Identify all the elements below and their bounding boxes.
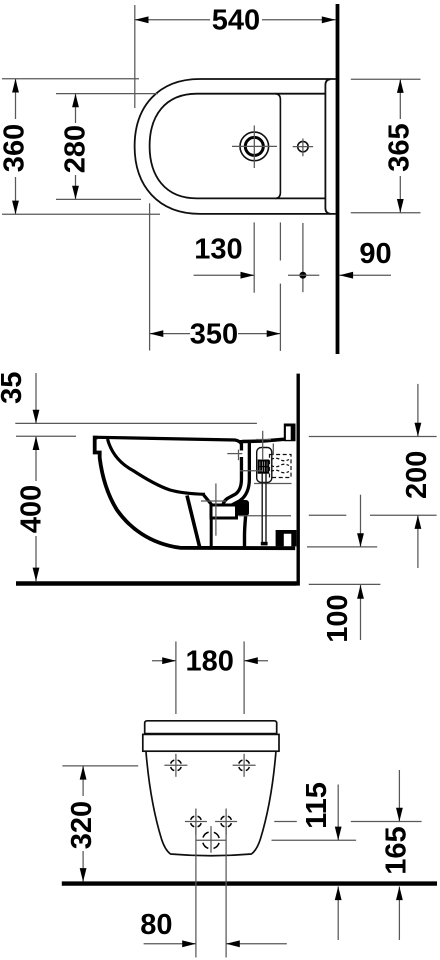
svg-text:400: 400 — [15, 485, 47, 533]
overflow channel walls (side) — [227, 440, 246, 508]
dim 280 arrow down — [72, 186, 79, 200]
dim 165 line — [398, 770, 400, 822]
trap inlet centerline horizontal — [201, 500, 226, 502]
svg-text:540: 540 — [212, 5, 260, 37]
wall outlet hatched region (dashed) — [270, 455, 292, 478]
dim 165 arrow down — [396, 808, 403, 822]
rim reference line A — [15, 422, 257, 424]
dim 165 arrow up — [396, 886, 403, 900]
hole reference dot — [299, 272, 306, 279]
wall line (side) — [297, 374, 300, 586]
drain funnel left slope — [204, 495, 212, 505]
chamber bottom line to wall — [254, 483, 292, 485]
bidet deck top (side) — [98, 437, 242, 444]
chamber top thick band — [242, 439, 284, 441]
dim 365 arrow up — [397, 79, 404, 93]
shell section rear edge — [187, 496, 200, 547]
dim 350 arrow right — [267, 330, 281, 337]
bidet inner rim outline (plan) — [150, 94, 326, 199]
dim 115 line — [337, 785, 339, 841]
mid-hole extension line right — [225, 826, 227, 958]
dim 320 line — [82, 766, 84, 796]
TOP VIEW — [0, 4, 421, 354]
inlet hole cross — [227, 453, 242, 455]
dim 180 extension right — [243, 641, 245, 714]
dim 360 arrow down — [12, 201, 19, 215]
dim 350 line — [150, 333, 190, 335]
faucet hole inner circle — [245, 137, 263, 155]
bidet back rim edge (plan) — [325, 79, 330, 214]
floor line (front) — [62, 881, 437, 885]
dim 540 line — [135, 19, 210, 21]
dim 90 arrow — [339, 272, 353, 279]
svg-text:80: 80 — [140, 909, 172, 941]
wall line (plan) — [336, 4, 340, 354]
faucet hole outer circle — [240, 132, 269, 161]
svg-text:180: 180 — [186, 645, 234, 677]
dim 180 line right stub — [244, 660, 268, 662]
mid hole level line — [274, 821, 297, 823]
dim 80 arrow left-pointing-right — [182, 940, 196, 947]
top wall bracket — [284, 424, 296, 442]
bowl inner surface curve (side) — [108, 439, 206, 494]
small hole extension line — [302, 223, 304, 292]
bottom wall bracket — [276, 530, 297, 546]
dim 200 extension top — [309, 436, 437, 438]
small hole centerline vertical — [302, 139, 304, 157]
valve chamber (side) — [257, 448, 272, 483]
dim 540 arrow right — [322, 16, 336, 23]
dim 115 arrow up — [335, 886, 342, 900]
mounting stud centerline — [262, 431, 264, 460]
dim 80 line right — [226, 943, 287, 945]
upper-left fixing hole — [164, 754, 187, 777]
bidet front lip + outer shell curve (side) — [95, 438, 296, 549]
dim 115 arrow down — [335, 827, 342, 841]
dim 320 arrow up — [80, 766, 87, 780]
dim 180 arrow right — [244, 657, 258, 664]
mid-hole extension line left — [195, 826, 197, 958]
drain trap box (side) — [211, 505, 237, 518]
dim 100 arrow up — [357, 585, 364, 599]
svg-text:100: 100 — [322, 594, 354, 642]
dim 365 extension top — [351, 78, 421, 80]
dim 80 arrow right-pointing-left — [226, 940, 240, 947]
dim 100 extension bottom (floor level) — [309, 583, 381, 585]
svg-text:350: 350 — [190, 318, 238, 350]
body outline (front) — [146, 752, 276, 856]
dim 280 arrow up — [72, 94, 79, 108]
dim 165 lower line — [398, 886, 400, 940]
dim 320 arrow down — [80, 868, 87, 882]
below-trap vertical edge — [210, 520, 213, 548]
dim 365 extension bottom — [351, 212, 421, 214]
drain outer tail edge — [245, 503, 247, 547]
dim 100 line bottom — [360, 585, 362, 640]
drain outlet centerline — [239, 515, 291, 517]
faucet hole centerline (side) — [240, 470, 262, 472]
dim 360 arrow up — [12, 79, 19, 93]
dim 280 extension bottom — [56, 198, 141, 200]
faucet centerline horizontal — [232, 145, 277, 147]
svg-text:280: 280 — [60, 125, 92, 173]
dim 80 line left — [144, 943, 196, 945]
svg-text:365: 365 — [383, 123, 415, 171]
valve ribbed box — [259, 461, 269, 473]
faucet centerline vertical — [253, 126, 255, 169]
dim 360 line — [15, 79, 17, 119]
floor line (side) — [16, 581, 297, 585]
dim 90 line — [339, 274, 391, 276]
dim 130 arrow — [241, 272, 255, 279]
mounting stud rod — [261, 473, 263, 542]
dim 360 extension bottom — [2, 213, 160, 215]
rim reference line B — [16, 435, 76, 437]
svg-text:200: 200 — [401, 451, 433, 499]
dim 180 arrow left — [162, 657, 176, 664]
svg-text:90: 90 — [359, 238, 391, 270]
dim 100 arrow down — [357, 533, 364, 547]
dim 400 line — [35, 436, 37, 481]
dim 360 extension top — [2, 78, 139, 80]
svg-text:35: 35 — [0, 372, 28, 404]
dim 280 extension top — [56, 93, 158, 95]
dim 180 line left stub — [152, 660, 176, 662]
deck edge dashed extension line — [279, 222, 281, 260]
dim 365 line — [399, 79, 401, 119]
lower hole level line — [196, 839, 226, 841]
dim 115 lower line — [337, 886, 339, 940]
inlet hole white break on wall — [239, 451, 244, 458]
dim 35 line — [35, 373, 37, 423]
dim 200 arrow down — [415, 423, 422, 437]
rim cap outline (front) — [145, 721, 277, 734]
upper-right fixing hole — [233, 754, 256, 777]
hole reference crosshair — [288, 274, 319, 276]
dim 280 line — [75, 94, 77, 123]
dim 400 arrow down — [33, 568, 40, 582]
dim 200 arrow up — [415, 515, 422, 529]
dim 350 extension left — [149, 203, 151, 350]
svg-text:360: 360 — [0, 124, 31, 172]
bidet outer outline (plan) — [135, 79, 336, 214]
deck-to-bracket corner — [272, 444, 274, 456]
dim 200 extension bottom — [309, 514, 347, 516]
dim 540 arrow left — [135, 16, 149, 23]
elbow merge blob — [237, 500, 249, 516]
dim 180 extension left — [175, 641, 177, 714]
dim 200 line bottom — [417, 515, 419, 568]
mid-right fixing hole — [215, 809, 237, 835]
dim 365 arrow down — [397, 199, 404, 213]
dim 320 extension top — [62, 765, 138, 767]
mid-left fixing hole — [185, 809, 207, 835]
dim 400 arrow up — [33, 436, 40, 450]
svg-text:165: 165 — [381, 826, 413, 874]
bowl/deck divider line (plan) — [275, 94, 280, 199]
dim 100 extension top — [307, 546, 377, 548]
small fixing hole circle — [298, 141, 308, 151]
svg-text:130: 130 — [194, 234, 242, 266]
FRONT VIEW — [62, 641, 437, 957]
dim 350 arrow left — [150, 330, 164, 337]
dim 35 arrow — [33, 410, 40, 424]
dim 100 line top — [360, 495, 362, 547]
dim 540 extension line left — [134, 5, 136, 108]
dim 130 extension line (faucet center) — [253, 222, 255, 292]
dim 200 line top — [417, 384, 419, 437]
lower drain hole — [203, 826, 220, 853]
trap centerline vertical — [215, 484, 217, 536]
svg-text:115: 115 — [301, 782, 333, 829]
SIDE VIEW — [0, 372, 437, 643]
rim band (front) — [143, 734, 279, 751]
dim 130 line — [194, 274, 255, 276]
svg-text:320: 320 — [66, 801, 98, 849]
small hole centerline horizontal — [293, 146, 313, 148]
